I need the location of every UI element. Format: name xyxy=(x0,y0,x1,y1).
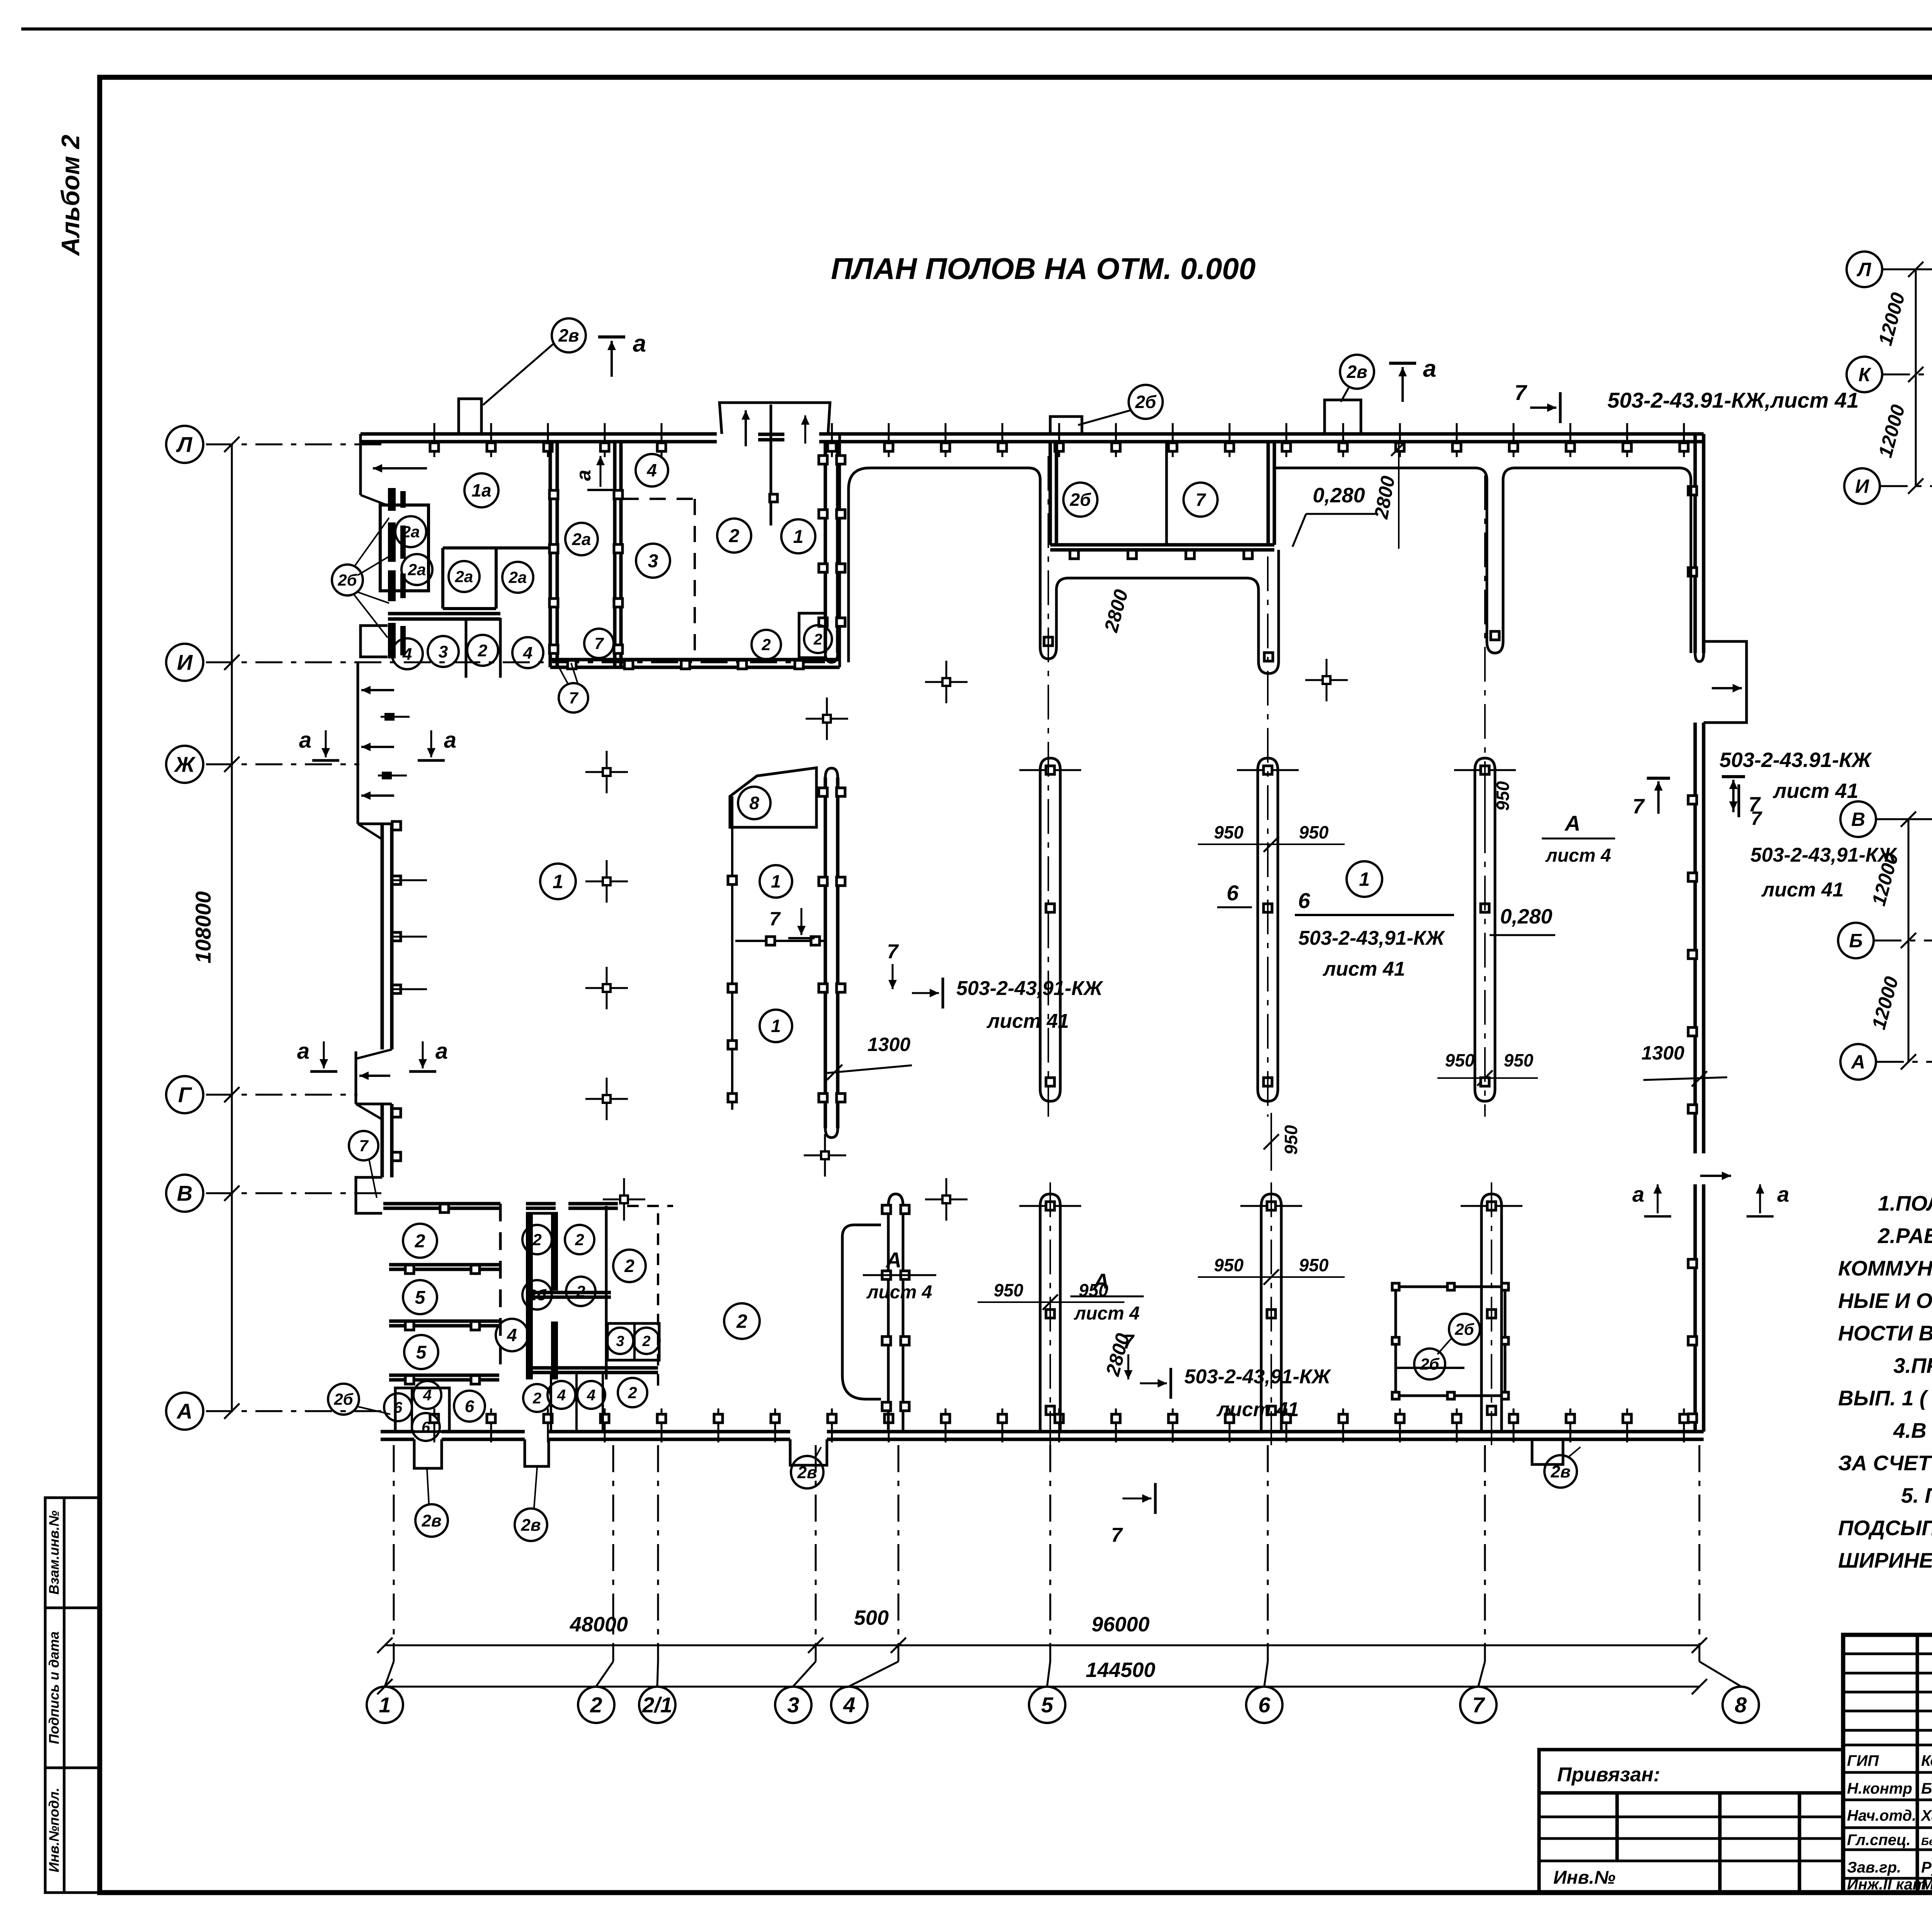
vestibule 7 before В xyxy=(356,1177,382,1213)
svg-text:ПЛАН ПОЛОВ НА ОТМ. 0.000: ПЛАН ПОЛОВ НА ОТМ. 0.000 xyxy=(831,252,1255,286)
room circle 3 xyxy=(636,544,670,578)
svg-text:5: 5 xyxy=(415,1287,426,1308)
svg-text:Взам.инв.№: Взам.инв.№ xyxy=(46,1510,62,1595)
svg-text:лист 41: лист 41 xyxy=(1322,958,1405,980)
svg-text:Хатеева: Хатеева xyxy=(1920,1807,1932,1824)
column grid circle 2/1 xyxy=(639,1687,675,1723)
building top wall xyxy=(361,432,717,436)
svg-text:3: 3 xyxy=(787,1693,799,1717)
svg-text:2в: 2в xyxy=(520,1515,541,1534)
svg-text:950: 950 xyxy=(994,1280,1024,1300)
section marks a-a lower pair xyxy=(323,1041,325,1068)
svg-text:1: 1 xyxy=(379,1693,391,1717)
svg-text:2в: 2в xyxy=(797,1463,817,1482)
svg-text:7: 7 xyxy=(569,689,578,707)
interior wall x1591 xyxy=(613,442,617,667)
svg-text:0,280: 0,280 xyxy=(1500,905,1552,928)
lower room partitions xyxy=(465,618,468,678)
right exit lobby xyxy=(1704,641,1747,723)
room circles 4 3 2 4 xyxy=(392,638,423,669)
svg-text:2: 2 xyxy=(575,1231,584,1249)
svg-text:7: 7 xyxy=(1633,795,1645,818)
svg-text:1а: 1а xyxy=(471,480,491,500)
svg-text:1300: 1300 xyxy=(867,1034,910,1055)
svg-text:2а: 2а xyxy=(509,568,527,587)
stamp name rows xyxy=(1843,1744,1932,1747)
room circles 2a xyxy=(395,516,426,547)
svg-text:2в: 2в xyxy=(558,325,579,345)
interior wall x1424 xyxy=(549,442,552,667)
svg-text:а: а xyxy=(297,1039,310,1064)
svg-text:КОММУНИКАЦИЙ В СООТВЕТСТВИИ: КОММУНИКАЦИЙ В СООТВЕТСТВИИ СО СНиП 3.04… xyxy=(1838,1256,1932,1280)
svg-text:2: 2 xyxy=(532,1390,541,1407)
flare bottom xyxy=(356,1049,392,1059)
svg-text:4: 4 xyxy=(507,1325,517,1345)
svg-text:1: 1 xyxy=(771,871,781,891)
svg-text:6: 6 xyxy=(422,1419,430,1436)
svg-text:2: 2 xyxy=(532,1231,541,1249)
svg-text:А: А xyxy=(885,1248,901,1272)
svg-text:НОСТИ В СТРОИТЕЛЬСТВЕ.": НОСТИ В СТРОИТЕЛЬСТВЕ." xyxy=(1838,1321,1932,1345)
vestibule box bottom-left xyxy=(361,626,388,657)
svg-text:2: 2 xyxy=(628,1384,637,1402)
svg-text:Н.контр: Н.контр xyxy=(1847,1780,1912,1797)
svg-text:7: 7 xyxy=(1514,380,1527,405)
svg-text:7: 7 xyxy=(1196,490,1206,510)
svg-text:2: 2 xyxy=(624,1256,634,1276)
svg-text:Инв.№подл.: Инв.№подл. xyxy=(46,1787,62,1872)
entrance arrows up xyxy=(745,410,747,446)
left wall double segment Ж-Г xyxy=(381,824,384,1049)
room 4 circle xyxy=(496,1319,528,1351)
row grid circle Г xyxy=(166,1076,203,1113)
svg-text:а: а xyxy=(435,1039,448,1064)
svg-text:1: 1 xyxy=(1359,869,1370,890)
svg-text:Гл.спец.: Гл.спец. xyxy=(1847,1832,1911,1849)
column grid circle 6 xyxy=(1246,1687,1282,1723)
svg-text:Л: Л xyxy=(1857,259,1872,281)
column grid circle 1 xyxy=(367,1687,403,1723)
callout circle 2б left xyxy=(332,565,363,595)
room block top-left: outer walls xyxy=(359,434,362,495)
svg-text:2.РАБОТЫ ПО УСТРОЙСТВУ ПОЛОВ В: 2.РАБОТЫ ПО УСТРОЙСТВУ ПОЛОВ ВЫПОЛНЯТЬ П… xyxy=(1878,1223,1932,1248)
lower small plan row circles В Б А xyxy=(1840,801,1876,837)
portal middle partition xyxy=(770,405,772,526)
vestibule notch above room 2б xyxy=(1050,417,1082,434)
bottom-left block top wall xyxy=(383,1202,500,1206)
room circle 2 (dashed room) xyxy=(717,519,751,553)
svg-text:лист 41: лист 41 xyxy=(1772,779,1859,803)
svg-text:Б: Б xyxy=(1849,930,1862,952)
inspection pit slot x3281 (middle band) xyxy=(1258,758,1278,1101)
bottom vestibule stubs xyxy=(414,1439,442,1468)
vestibule 2в above room 7 xyxy=(1325,400,1361,434)
2a cluster stub walls xyxy=(388,488,396,511)
inspection pit slot x2718 (middle band) xyxy=(1040,758,1060,1101)
svg-text:2: 2 xyxy=(813,631,822,648)
lower region corridor lines xyxy=(842,1225,881,1376)
section mark a (interior corridor) xyxy=(600,456,602,487)
row grid circle А xyxy=(166,1393,203,1430)
room circles 7 with leaders xyxy=(584,629,614,658)
top wall pilasters xyxy=(434,423,435,457)
pit centre dash-dot lines xyxy=(1048,456,1049,1117)
svg-text:2: 2 xyxy=(590,1693,602,1717)
room 2б (bottom right) xyxy=(1396,1287,1505,1396)
svg-text:7: 7 xyxy=(1123,1331,1135,1353)
svg-text:Рубцова: Рубцова xyxy=(1921,1859,1932,1876)
svg-text:лист 4: лист 4 xyxy=(1074,1303,1140,1324)
svg-text:Л: Л xyxy=(176,432,193,457)
svg-text:Белоусова: Белоусова xyxy=(1921,1780,1932,1797)
svg-text:А: А xyxy=(1850,1051,1865,1073)
svg-text:Г: Г xyxy=(178,1083,192,1107)
svg-text:503-2-43.91-КЖ: 503-2-43.91-КЖ xyxy=(1719,748,1872,772)
section flag 7 mid xyxy=(801,908,803,935)
big room 2 xyxy=(724,1303,760,1339)
column grid dash-dot lines below plan xyxy=(393,1445,395,1662)
svg-text:7: 7 xyxy=(769,908,781,930)
svg-text:2б: 2б xyxy=(527,1287,546,1304)
row grid circle Л xyxy=(166,426,203,463)
svg-text:Альбом 2: Альбом 2 xyxy=(56,134,85,256)
top entrance portal xyxy=(719,403,830,434)
svg-text:2в: 2в xyxy=(421,1511,441,1530)
svg-text:Зав.гр.: Зав.гр. xyxy=(1847,1859,1901,1876)
column wall line 4 lower segment xyxy=(888,1194,903,1432)
svg-text:4: 4 xyxy=(402,645,412,663)
svg-text:2б: 2б xyxy=(1454,1320,1474,1338)
vertical dim 12000/12000 xyxy=(1908,819,1910,1062)
callout circle 2в top-left xyxy=(552,318,586,352)
bottom dimension line 48000/500/96000 xyxy=(385,1645,1699,1646)
svg-text:6: 6 xyxy=(394,1399,403,1416)
svg-text:2/1: 2/1 xyxy=(642,1693,672,1717)
svg-text:4.В ПОЛАХ НА ГРУНТЕ ВЫПОЛНИТЬ: 4.В ПОЛАХ НА ГРУНТЕ ВЫПОЛНИТЬ УКЛОНЫ К К… xyxy=(1893,1418,1932,1442)
svg-text:Нач.отд.: Нач.отд. xyxy=(1847,1807,1916,1824)
callout 2б left xyxy=(328,1384,359,1415)
recessed thin segment at Г xyxy=(355,1051,357,1104)
svg-text:8: 8 xyxy=(1735,1693,1747,1717)
svg-text:а: а xyxy=(573,470,595,481)
svg-text:950: 950 xyxy=(1299,1255,1329,1275)
svg-text:950: 950 xyxy=(1493,781,1513,811)
svg-text:лист 4: лист 4 xyxy=(866,1282,932,1303)
2a cluster room walls xyxy=(380,505,429,591)
bottom dimension line 144500 xyxy=(385,1686,1699,1688)
rooms 2 4 4 2 bottom xyxy=(526,1366,658,1370)
svg-text:7: 7 xyxy=(594,634,604,653)
svg-text:3: 3 xyxy=(616,1333,624,1349)
svg-text:ЗА СЧЕТ ПЛАНИРОВКИ ГРУНТА.: ЗА СЧЕТ ПЛАНИРОВКИ ГРУНТА. xyxy=(1838,1451,1932,1475)
dashed partition room 4/3 xyxy=(622,498,695,500)
pit slot A2 xyxy=(1247,550,1279,673)
svg-text:7: 7 xyxy=(1472,1693,1485,1717)
right wall pilasters xyxy=(1688,486,1697,495)
column grid circle 4 xyxy=(831,1687,867,1723)
svg-text:Подпись и дата: Подпись и дата xyxy=(46,1631,62,1744)
svg-text:8: 8 xyxy=(749,793,759,813)
svg-text:144500: 144500 xyxy=(1086,1658,1155,1682)
svg-text:96000: 96000 xyxy=(1092,1613,1150,1636)
svg-text:4: 4 xyxy=(843,1693,855,1717)
svg-text:6: 6 xyxy=(1226,881,1239,905)
region boundary line left corner xyxy=(849,468,1028,662)
transition flare xyxy=(358,823,392,825)
svg-text:2б: 2б xyxy=(333,1390,353,1408)
callout circles 2в bottom xyxy=(415,1504,448,1537)
svg-text:7: 7 xyxy=(1111,1524,1123,1546)
room circle 1 xyxy=(781,519,815,553)
svg-text:Ж: Ж xyxy=(173,752,196,777)
svg-text:В: В xyxy=(177,1181,192,1206)
svg-text:А: А xyxy=(176,1399,192,1423)
svg-text:Коростелев: Коростелев xyxy=(1921,1752,1932,1769)
room block bottom wall xyxy=(550,658,840,662)
svg-text:4: 4 xyxy=(557,1387,566,1404)
svg-text:2б: 2б xyxy=(337,571,357,589)
callout circle 2в above room 7 xyxy=(1340,355,1374,389)
svg-text:Инв.№: Инв.№ xyxy=(1553,1867,1616,1888)
column grid circle 7 xyxy=(1460,1687,1497,1723)
svg-text:2в: 2в xyxy=(1346,362,1367,382)
pit slot A1 xyxy=(1028,468,1247,659)
svg-text:а: а xyxy=(1777,1182,1789,1206)
svg-text:503-2-43,91-КЖ: 503-2-43,91-КЖ xyxy=(1298,927,1446,949)
svg-text:3: 3 xyxy=(439,642,448,661)
svg-text:4: 4 xyxy=(646,460,657,480)
svg-text:лист 41: лист 41 xyxy=(986,1010,1069,1032)
svg-text:950: 950 xyxy=(1214,1255,1244,1275)
row grid dash-dot lines xyxy=(206,444,383,446)
svg-text:2б: 2б xyxy=(1135,392,1157,412)
svg-text:5: 5 xyxy=(416,1342,427,1363)
left margin table xyxy=(45,1498,100,1893)
svg-text:2: 2 xyxy=(576,1282,585,1301)
pilaster T-marks on recessed wall xyxy=(384,713,395,721)
room circle 4 (top) xyxy=(636,454,668,486)
section marks a-a upper pair xyxy=(325,730,327,757)
svg-text:6: 6 xyxy=(465,1397,474,1416)
section mark Та (left) xyxy=(598,335,625,338)
svg-text:0,280: 0,280 xyxy=(1313,484,1365,507)
svg-text:В: В xyxy=(1851,809,1865,830)
svg-text:2: 2 xyxy=(478,641,488,660)
svg-text:503-2-43.91-КЖ,лист 41: 503-2-43.91-КЖ,лист 41 xyxy=(1607,388,1859,412)
room 1a exit arrow xyxy=(373,467,427,469)
svg-text:48000: 48000 xyxy=(570,1613,628,1636)
inspection pit slot x2718 (lower band) xyxy=(1040,1194,1060,1432)
svg-text:лист 41: лист 41 xyxy=(1761,879,1844,901)
room circle 1a xyxy=(464,473,498,507)
svg-text:Манякина: Манякина xyxy=(1921,1876,1932,1893)
svg-text:И: И xyxy=(177,650,193,675)
svg-text:1.ПОЛ ТИПА 1 РАССЧИТАН НА НАГР: 1.ПОЛ ТИПА 1 РАССЧИТАН НА НАГРУЗКУ ОТ АВ… xyxy=(1878,1191,1932,1215)
svg-text:2: 2 xyxy=(415,1231,425,1252)
svg-text:4: 4 xyxy=(423,1387,432,1404)
svg-text:2а: 2а xyxy=(572,530,591,549)
svg-text:лист 4: лист 4 xyxy=(1545,845,1611,866)
building bottom wall xyxy=(381,1430,414,1434)
svg-text:2б: 2б xyxy=(1070,490,1092,510)
room circle 2а corridor xyxy=(565,523,598,555)
svg-text:2: 2 xyxy=(729,526,740,546)
vertical dimension line 108000 xyxy=(231,444,233,1411)
svg-text:1: 1 xyxy=(793,527,804,547)
middle column rooms xyxy=(526,1213,533,1379)
svg-text:6: 6 xyxy=(1258,1693,1270,1717)
svg-text:а: а xyxy=(1632,1182,1644,1206)
svg-text:2: 2 xyxy=(736,1311,747,1332)
svg-text:ШИРИНЕ 800 ММ.: ШИРИНЕ 800 ММ. xyxy=(1838,1548,1932,1572)
svg-text:503-2-43,91-КЖ: 503-2-43,91-КЖ xyxy=(956,977,1104,1000)
svg-text:а: а xyxy=(633,330,646,357)
stamp table outer xyxy=(1843,1635,1932,1893)
row dash-dot lines xyxy=(1883,269,1932,270)
left exterior wall: recessed thin segment И-Ж xyxy=(357,662,359,824)
svg-text:950: 950 xyxy=(1079,1280,1109,1300)
svg-text:ПОДСЫПКОЙ КЕРАМЗИТОВОГО ГР: ПОДСЫПКОЙ КЕРАМЗИТОВОГО ГРАВИЯ ТОЛЩИНОЙ … xyxy=(1838,1515,1932,1540)
room circle 2 small (bottom) xyxy=(752,630,781,659)
svg-text:3: 3 xyxy=(648,551,658,571)
arrows into left wall xyxy=(361,689,394,691)
small room 2 at wall base xyxy=(799,613,825,658)
svg-text:Бескоровайный: Бескоровайный xyxy=(1921,1835,1932,1847)
svg-text:3.ПРИМЫКАНИЕ ПОЛОВ К СТЕНАМ: 3.ПРИМЫКАНИЕ ПОЛОВ К СТЕНАМ ВЫПОЛНИТЬ ПО… xyxy=(1893,1354,1932,1378)
callout circle 2б above wall xyxy=(1129,385,1163,419)
svg-text:108000: 108000 xyxy=(191,891,215,964)
svg-text:2: 2 xyxy=(642,1333,650,1349)
svg-text:6: 6 xyxy=(1298,888,1310,913)
svg-text:2: 2 xyxy=(761,636,770,654)
svg-text:4: 4 xyxy=(587,1387,595,1404)
room 8 xyxy=(730,768,816,827)
svg-text:1300: 1300 xyxy=(1641,1042,1684,1064)
row grid circle В xyxy=(166,1175,203,1212)
svg-text:503-2-43,91-КЖ: 503-2-43,91-КЖ xyxy=(1184,1366,1332,1388)
привязан table xyxy=(1539,1750,1843,1893)
svg-text:2а: 2а xyxy=(408,561,426,579)
svg-text:1: 1 xyxy=(771,1016,781,1036)
bottom wall pilasters xyxy=(434,1408,435,1442)
svg-text:950: 950 xyxy=(1281,1125,1301,1155)
svg-text:5: 5 xyxy=(1041,1693,1053,1717)
column grid circle 5 xyxy=(1029,1687,1065,1723)
svg-text:ГИП: ГИП xyxy=(1847,1752,1879,1769)
row grid circle И xyxy=(166,644,203,681)
transition to lower double wall xyxy=(356,1103,392,1105)
svg-text:503-2-43,91-КЖ: 503-2-43,91-КЖ xyxy=(1750,844,1898,866)
svg-text:4: 4 xyxy=(523,643,532,662)
partition wall horizontal y2435 xyxy=(735,940,825,942)
rooms 3 2 xyxy=(607,1323,659,1360)
right exit arrow lower xyxy=(1700,1175,1731,1177)
svg-text:Инж.II кат: Инж.II кат xyxy=(1847,1876,1926,1893)
column centre crosses xyxy=(585,771,628,773)
region line right of block xyxy=(1274,468,1691,653)
column grid circle 8 xyxy=(1723,1687,1759,1723)
svg-text:5. ПО ПЕРИМЕТРУ ЗДАНИЯ У НА: 5. ПО ПЕРИМЕТРУ ЗДАНИЯ У НАРУЖЕНЫХ СТЕН … xyxy=(1901,1483,1932,1507)
vestibule 2в top-left xyxy=(459,399,481,434)
section flag 7 (top right) xyxy=(1559,392,1562,423)
svg-text:2а: 2а xyxy=(455,568,473,586)
upper small plan row circles Л К И xyxy=(1847,252,1882,287)
bottom-left small rooms 4/6 xyxy=(395,1388,449,1432)
svg-text:НЫЕ И ОТДЕЛОЧНЫЕ МАТЕРИАЛЫ ",: НЫЕ И ОТДЕЛОЧНЫЕ МАТЕРИАЛЫ ", СНиП III-4… xyxy=(1838,1289,1932,1313)
svg-text:950: 950 xyxy=(1214,822,1244,842)
svg-text:2в: 2в xyxy=(1550,1462,1570,1481)
inspection pit slot x3843 (middle band) xyxy=(1475,758,1495,1101)
svg-text:7: 7 xyxy=(1751,808,1762,829)
section flag 7 lower xyxy=(1154,1483,1157,1514)
svg-text:А: А xyxy=(1564,811,1580,835)
inspection pit slot x3860 (lower band) xyxy=(1481,1194,1502,1432)
svg-text:950: 950 xyxy=(1299,822,1329,842)
column grid circle 2 xyxy=(578,1687,614,1723)
svg-text:а: а xyxy=(299,728,311,753)
outer border top line xyxy=(21,27,1932,31)
svg-text:лист 41: лист 41 xyxy=(1216,1398,1299,1421)
svg-text:2а: 2а xyxy=(401,523,420,541)
section marks а near right exit xyxy=(1657,1184,1659,1213)
svg-text:2б: 2б xyxy=(1420,1355,1439,1373)
svg-text:Привязан:: Привязан: xyxy=(1557,1764,1660,1786)
vertical dim line 12000/12000 xyxy=(1915,269,1917,486)
column wall line 3 lower segment xyxy=(825,768,838,777)
inspection pit slot x3290 (lower band) xyxy=(1261,1194,1281,1432)
column wall line 3 upper segment xyxy=(824,442,827,653)
top room block 2б/7 xyxy=(1049,442,1052,545)
stamp thin rows xyxy=(1843,1653,1932,1655)
svg-text:И: И xyxy=(1855,476,1869,497)
svg-text:950: 950 xyxy=(1445,1050,1475,1070)
svg-text:950: 950 xyxy=(1504,1050,1534,1070)
right exterior wall xyxy=(1694,434,1697,653)
svg-text:ВЫП. 1 ( УЗЛЫ 140, 143 ).: ВЫП. 1 ( УЗЛЫ 140, 143 ). xyxy=(1838,1386,1932,1410)
bottom-left block room walls column 1 xyxy=(499,1204,502,1375)
row grid circle Ж xyxy=(166,746,203,783)
partition wall west of hall xyxy=(731,796,733,1110)
svg-text:а: а xyxy=(1423,355,1436,382)
svg-text:1: 1 xyxy=(553,871,563,893)
section mark Та (right) xyxy=(1389,362,1416,365)
svg-text:7: 7 xyxy=(359,1137,369,1155)
svg-text:7: 7 xyxy=(887,940,899,963)
room circles 1 (hall) xyxy=(540,864,576,899)
svg-text:К: К xyxy=(1859,364,1872,386)
svg-text:а: а xyxy=(444,728,456,753)
column grid circle 3 xyxy=(775,1687,811,1723)
room circles 2 5 5 xyxy=(403,1224,437,1258)
svg-text:500: 500 xyxy=(854,1606,889,1629)
